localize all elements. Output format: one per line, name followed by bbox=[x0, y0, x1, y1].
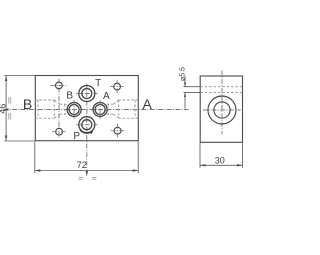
symmetry marks left bbox=[9, 97, 11, 120]
port B bbox=[67, 103, 81, 117]
svg-text:30: 30 bbox=[215, 155, 225, 165]
wire B vertical crosshair bbox=[73, 100, 75, 119]
mounting hole top-left bbox=[56, 82, 63, 89]
svg-text:A: A bbox=[103, 91, 110, 102]
wire A vertical crosshair bbox=[99, 100, 101, 119]
svg-text:B: B bbox=[23, 96, 32, 112]
block outline (side view) bbox=[200, 76, 242, 142]
svg-text:46: 46 bbox=[0, 104, 8, 114]
wire T crosshair bbox=[76, 93, 97, 95]
mounting hole bottom-right bbox=[114, 127, 121, 134]
mounting hole bottom-left bbox=[56, 128, 63, 135]
mounting hole top-right bbox=[114, 83, 121, 90]
dimension 72 bbox=[35, 142, 138, 174]
drill passage hidden lines bbox=[200, 87, 242, 93]
svg-text:72: 72 bbox=[77, 160, 87, 170]
svg-text:B: B bbox=[66, 90, 73, 101]
arc arrow on P bbox=[80, 130, 93, 134]
cavity right side port (hidden lines) bbox=[107, 100, 139, 118]
port A bbox=[93, 103, 107, 117]
cavity left side port (hidden lines) bbox=[35, 100, 67, 118]
svg-text:⌀5.5: ⌀5.5 bbox=[180, 67, 187, 81]
wire left mounting-holes centerline bbox=[58, 79, 60, 139]
port P bbox=[79, 117, 95, 133]
arrow left centerline bbox=[3, 108, 9, 110]
wire vertical centerline P-T axis bbox=[86, 84, 88, 177]
svg-text:T: T bbox=[95, 78, 101, 89]
wire side port horizontal crosshair bbox=[203, 109, 241, 111]
svg-text:A: A bbox=[143, 96, 153, 112]
port T bbox=[79, 86, 95, 102]
wire block vertical centerline bbox=[221, 71, 223, 135]
wire horizontal centerline B-A axis bbox=[4, 109, 189, 111]
side port circle bbox=[208, 96, 236, 124]
plate outline (top view) bbox=[35, 76, 138, 141]
symmetry marks bottom bbox=[79, 177, 97, 179]
dimension 30 bbox=[200, 143, 243, 168]
arrow bottom centerline bbox=[86, 171, 88, 176]
wire P crosshair bbox=[76, 124, 97, 126]
dimension 46 bbox=[4, 76, 35, 142]
svg-text:P: P bbox=[73, 131, 80, 142]
dimension dia 5.5 bbox=[184, 76, 201, 109]
